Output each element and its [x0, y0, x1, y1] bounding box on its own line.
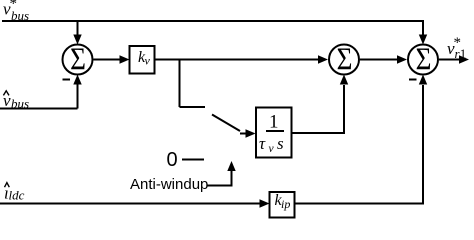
svg-text:v: v — [145, 54, 151, 68]
svg-text:Σ: Σ — [416, 43, 432, 77]
svg-text:0: 0 — [167, 149, 178, 171]
svg-text:Σ: Σ — [70, 43, 86, 77]
svg-text:ip: ip — [281, 197, 290, 211]
svg-text:bus: bus — [11, 8, 29, 23]
svg-text:bus: bus — [11, 96, 29, 111]
svg-text:1: 1 — [269, 112, 279, 133]
svg-text:Anti-windup: Anti-windup — [130, 176, 208, 193]
svg-text:ldc: ldc — [9, 188, 25, 203]
svg-text:Σ: Σ — [337, 43, 353, 77]
svg-text:1: 1 — [460, 46, 467, 61]
svg-text:τ: τ — [259, 134, 266, 153]
svg-text:s: s — [277, 134, 284, 153]
svg-text:v: v — [269, 143, 275, 155]
